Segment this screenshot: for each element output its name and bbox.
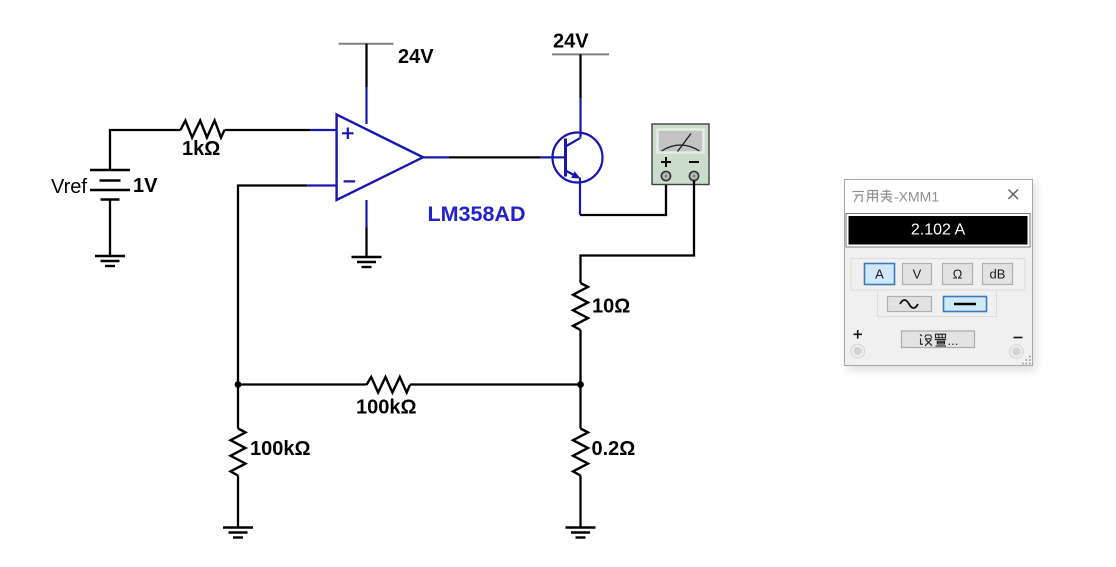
wire inverting input from node A [238, 186, 307, 385]
multimeter panel window XMM1 [844, 179, 1033, 366]
title glyph wan [853, 192, 865, 203]
wire node A down [237, 385, 239, 429]
display black screen [849, 216, 1028, 245]
svg-text:100kΩ: 100kΩ [356, 397, 417, 419]
wire node B down [579, 385, 581, 429]
svg-text:0.2Ω: 0.2Ω [592, 438, 636, 460]
svg-text:24V: 24V [553, 31, 589, 53]
button DC (dash, selected) [944, 297, 987, 312]
settings button [902, 331, 975, 348]
resistor R2 100kOhm feedback zigzag [367, 377, 411, 393]
button dB [983, 264, 1013, 285]
groupbox mode buttons [851, 259, 1025, 291]
title glyph biao [881, 190, 893, 203]
svg-text:24V: 24V [398, 46, 434, 68]
svg-text:LM358AD: LM358AD [428, 202, 526, 226]
svg-text:-XMM1: -XMM1 [894, 189, 939, 205]
pin stub Q1 collector [579, 98, 581, 138]
svg-text:1V: 1V [133, 175, 158, 197]
pin stub Q1 base [540, 156, 566, 158]
pin stub op-amp inverting input [307, 184, 337, 186]
wire source bottom to ground [109, 200, 111, 257]
wire op-amp output to Q1 base [449, 156, 540, 158]
plus terminal jack [851, 344, 865, 358]
ground under R3 [223, 528, 253, 538]
title bar [844, 179, 1033, 214]
voltage source Vref battery plates [90, 170, 130, 200]
wire R4 to ground [579, 476, 581, 528]
button Ohm [943, 264, 973, 285]
resistor R3 100kOhm vertical zigzag [231, 429, 246, 476]
title glyph yong [867, 191, 877, 203]
svg-text:V: V [913, 267, 922, 282]
pin stub op-amp V- [365, 200, 367, 228]
settings glyph she [920, 335, 932, 346]
op-amp U1 LM358AD triangle [337, 115, 423, 201]
groupbox waveform buttons [878, 290, 997, 317]
button A (selected) [865, 264, 895, 285]
button V [903, 264, 932, 285]
transistor Q1 [553, 133, 603, 183]
pin stub op-amp output [423, 156, 449, 158]
wire 10 Ohm to node B [579, 330, 581, 385]
power supply 24V bar (op-amp) [339, 43, 394, 45]
svg-text:100kΩ: 100kΩ [250, 438, 311, 460]
plus terminal label [854, 330, 863, 339]
resistor 10 Ohm zigzag [573, 283, 588, 330]
power supply 24V bar (transistor) [552, 53, 609, 55]
svg-text:1kΩ: 1kΩ [182, 138, 220, 160]
minus terminal jack [1010, 345, 1024, 359]
svg-text:...: ... [948, 333, 959, 348]
wire R3 to ground [237, 476, 239, 528]
minus terminal label [1014, 337, 1023, 339]
wire node A to feedback resistor [238, 383, 367, 385]
wire Q1 emitter to meter plus terminal [580, 181, 666, 216]
ground under R4 [566, 528, 596, 538]
pin stub Q1 emitter [579, 178, 581, 216]
close button [1009, 190, 1019, 200]
wire op-amp V- to ground [365, 228, 367, 258]
ground under op-amp [352, 257, 382, 267]
settings glyph zhi [935, 334, 946, 346]
svg-text:10Ω: 10Ω [592, 296, 630, 318]
wire meter minus terminal down to 10 Ohm resistor [581, 181, 695, 284]
multimeter icon XMM1 [652, 124, 709, 185]
wire feedback resistor to node B [410, 383, 581, 385]
node B junction dot [577, 381, 584, 388]
pin stub op-amp V+ [365, 87, 367, 124]
node A junction dot [235, 381, 242, 388]
button AC (sine) [888, 297, 932, 312]
wire source top to R1 [110, 130, 181, 170]
svg-text:Vref: Vref [51, 176, 87, 198]
svg-text:dB: dB [990, 267, 1006, 282]
resize grip [1022, 356, 1031, 365]
svg-text:A: A [875, 267, 884, 282]
resistor R4 0.2 Ohm vertical zigzag [573, 429, 588, 476]
wire 24V bar to op-amp V+ [365, 44, 367, 87]
display bezel [846, 214, 1030, 248]
pin stub op-amp noninverting input [310, 129, 337, 131]
svg-text:Ω: Ω [953, 267, 963, 282]
svg-text:2.102 A: 2.102 A [911, 222, 966, 239]
wire 24V bar to Q1 collector [579, 54, 581, 98]
ground under Vref [95, 256, 125, 266]
window border [845, 180, 1033, 366]
wire R1 to op-amp [225, 129, 311, 131]
resistor R1 1kOhm zigzag [181, 121, 225, 138]
